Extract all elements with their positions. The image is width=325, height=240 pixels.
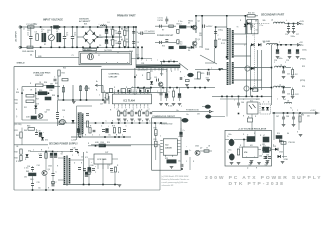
choke L1 [42,33,44,42]
svg-text:C16: C16 [285,34,288,36]
svg-text:100u: 100u [88,172,92,174]
wire primary rail A [127,27,129,47]
svg-text:R45: R45 [26,170,29,173]
wire caps right v [119,27,121,32]
svg-text:C28: C28 [62,110,65,112]
resistor R46 [88,168,90,175]
wire right rail [271,45,273,105]
svg-text:1n: 1n [27,35,29,37]
IC U1 TL494 box [112,94,151,104]
ground c26 [206,79,210,81]
capacitor C20 bank [296,49,299,52]
inductor L6 -5V [275,66,286,67]
opto U4 box [247,102,258,114]
wire bridge v [89,27,91,30]
svg-text:IC5: IC5 [250,101,253,103]
svg-text:+: + [43,132,44,134]
svg-text:L3: L3 [108,22,110,24]
wire pads left [96,84,98,86]
wire y1845 bus [63,184,118,186]
svg-text:11: 11 [170,60,172,62]
resistor R57 [263,148,271,151]
svg-text:GND 4A/6MA: GND 4A/6MA [22,50,34,53]
res above T2 a [79,86,81,91]
TL494 lower grounds [117,118,121,120]
svg-text:D11: D11 [24,107,27,109]
svg-text:D18: D18 [36,103,39,105]
wire 33 drop [273,113,275,140]
wire rails above T2 [62,85,64,100]
wire standby top area [21,128,23,132]
transformer T3 secondary winding [232,30,234,58]
svg-text:L?: L? [263,135,265,137]
shield box inner [81,53,131,63]
svg-text:R29: R29 [16,92,19,94]
more bus dots [102,99,104,101]
res above T2 b [85,86,87,91]
diode D10 [150,81,153,84]
capacitor C22 [282,90,285,92]
svg-text:10u: 10u [186,114,189,116]
resistor R42 [20,149,22,154]
wire bus y123 [14,122,167,124]
ground r56 [299,134,303,136]
component X1 [59,121,64,125]
wire 33 inner [225,139,229,141]
wire left mid [22,119,48,121]
svg-text:PRIMARY PART: PRIMARY PART [117,15,136,18]
capacitor C29 [86,113,89,115]
wire primary rail B [133,27,135,47]
wire bus y100 [58,99,103,101]
svg-text:T2: T2 [61,152,63,154]
svg-text:R5: R5 [126,28,128,30]
svg-text:CX1: CX1 [27,30,30,32]
svg-text:INPUT VOLTAGE: INPUT VOLTAGE [43,19,63,22]
svg-text:10u: 10u [108,135,111,137]
capacitor C36 top [70,149,73,151]
wire -5V out [286,67,291,69]
caps above bus137 a [77,128,80,131]
wire t3 top feed [216,26,227,28]
resistor R32 dark [31,116,37,119]
wire bus y137 [71,136,131,138]
capacitor C12 h [159,25,161,28]
svg-text:C19: C19 [286,60,289,62]
wire powergood wire [152,111,209,113]
diode D7 [244,24,247,27]
inductor L3 on bus [101,25,107,26]
dot t4 [77,152,79,154]
pad +5V [298,44,300,46]
svg-text:100u: 100u [228,134,232,136]
svg-text:Q7: Q7 [200,148,202,150]
standby box top [14,144,48,146]
svg-text:C7 1u/250V: C7 1u/250V [145,31,156,33]
resistor R51 [155,141,158,147]
resistor R55 [299,116,301,122]
svg-text:D14: D14 [28,150,31,153]
svg-text:(PWR): (PWR) [300,59,306,61]
svg-text:+: + [99,24,100,26]
svg-text:C24 10u: C24 10u [194,78,200,81]
svg-text:CIRCUIT: CIRCUIT [109,76,119,78]
svg-text:R1: R1 [44,44,46,46]
svg-text:POWERGOOD: POWERGOOD [186,110,200,112]
diode D5 [191,25,194,28]
junction dots input bus [40,26,42,28]
svg-text:3u3: 3u3 [283,99,286,101]
svg-text:D6: D6 [188,50,190,52]
standby box right [159,145,161,190]
svg-text:R42: R42 [15,151,18,154]
svg-text:R23: R23 [62,73,65,75]
wire left of IC [103,99,109,101]
resistor R52 dark [167,160,176,163]
svg-text:7: 7 [157,60,158,62]
capacitor C13 [165,39,168,41]
svg-text:Q6: Q6 [48,169,50,171]
cluster caps [54,78,57,80]
grounds 33bus [282,124,286,126]
capacitor C8 [202,25,204,28]
LM339 pins right [177,140,180,142]
capacitor C9 [132,30,135,32]
oval cap PG3 [182,118,188,122]
wire diag2 [200,55,217,64]
wire lower cluster h [155,41,176,43]
wire T3 taps right [234,33,247,35]
svg-text:R24: R24 [44,81,47,84]
IC U2 LM339 box [163,139,177,155]
electrolytic C33 [50,153,53,156]
svg-text:POWERGOOD: POWERGOOD [160,124,174,126]
caps right of IC b [165,93,168,96]
ground end bus [118,184,122,186]
svg-text:SECONDARY PART: SECONDARY PART [261,13,285,16]
resistor R33 [86,121,88,127]
svg-text:C+: C+ [227,136,229,138]
svg-text:C 10n: C 10n [178,42,182,44]
inductor L4 +12V [274,22,285,23]
svg-text:1: 1 [141,60,142,62]
wire +5V out [278,44,297,46]
svg-text:+5V: +5V [299,42,303,44]
caps right of IC c [172,91,174,97]
ecap C40 [179,132,182,135]
svg-text:C 1n: C 1n [260,25,264,27]
svg-text:+: + [91,162,92,164]
capacitor C23 [156,79,158,82]
wire doubler left rail [76,27,78,47]
resistor R44 [45,153,47,159]
coil small [219,69,223,70]
svg-text:10n: 10n [176,110,179,112]
dual diode -5V [245,66,250,71]
resistor R17 [147,73,150,80]
wire diag1 [179,63,188,70]
wire plug left [20,27,22,47]
svg-text:L6: L6 [280,65,282,67]
diode D9 +5V [251,43,254,46]
resistor R8 [179,26,186,29]
capacitor C5 bulk [105,29,108,32]
transistor Q5 [38,114,43,119]
svg-text:3: 3 [146,60,147,62]
svg-text:C15: C15 [218,30,221,32]
svg-text:D5: D5 [188,23,190,25]
junction dots extra doubler [82,26,84,28]
svg-text:R10: R10 [107,142,110,144]
snubber cap [250,24,253,26]
ecap C44 [229,154,234,160]
oval cap PG1 [205,105,211,109]
capacitor C32 [39,155,42,157]
svg-text:R46: R46 [91,164,94,167]
svg-text:C32: C32 [39,154,42,156]
svg-text:C2: C2 [66,35,68,37]
svg-text:CONTROL: CONTROL [109,74,120,76]
svg-text:Q2: Q2 [198,39,200,41]
svg-text:R 150K: R 150K [16,161,22,163]
wire +12V out [285,23,297,25]
svg-text:C6: C6 [99,45,101,47]
diode D8 [247,22,250,25]
resistor R3 [112,39,114,45]
svg-text:3039: 3039 [199,35,203,37]
wire bottom bus input [21,46,136,48]
svg-text:R34: R34 [101,141,104,144]
wire pg ovals [202,106,205,108]
svg-text:OUT: OUT [105,152,108,154]
wire T2 top [77,105,93,107]
capacitor C42 [180,164,182,167]
capacitor C14 h [159,41,161,44]
svg-text:R15: R15 [302,66,305,68]
svg-text:200W PC ATX POWER SUPPLY: 200W PC ATX POWER SUPPLY [205,175,322,181]
box comp 33b [263,147,269,153]
svg-text:L: L [211,68,212,70]
svg-text:C9: C9 [137,55,139,57]
svg-text:C48: C48 [286,115,289,118]
svg-text:R7: R7 [162,30,164,32]
hatched strip connector [136,65,180,68]
svg-text:L2: L2 [56,31,58,33]
caps right standby [52,173,55,175]
wire mid rail x215 [215,27,217,47]
wire top bus input [21,26,136,28]
svg-text:CN1: CN1 [141,63,144,65]
svg-text:3866: 3866 [30,179,34,181]
svg-text:(+5V): (+5V) [72,139,77,141]
transformer T3 lower winding [227,62,229,85]
inductor L5 +5V [267,43,278,44]
svg-text:+: + [178,136,179,138]
capacitor C48 [292,116,295,118]
svg-text:817: 817 [256,99,259,101]
wire varistor v [50,27,52,35]
wire pins to parts [118,109,120,111]
resistor R54 [253,89,259,91]
svg-text:C34: C34 [37,164,40,167]
resistor R20 [197,72,200,79]
svg-text:C+: C+ [80,126,82,128]
wire pg left [155,123,157,130]
svg-text:R41: R41 [16,134,19,137]
wire above strip [160,61,178,63]
svg-text:R27: R27 [36,99,39,101]
svg-text:+3.3V VOLTAGE REGULATOR: +3.3V VOLTAGE REGULATOR [238,127,267,130]
svg-text:220: 220 [307,116,310,118]
svg-text:220u: 220u [99,37,103,39]
svg-text:104: 104 [206,77,209,80]
svg-text:Q5: Q5 [45,112,47,114]
oval cap PG2 [206,115,212,119]
capacitor C37 [78,167,81,169]
junction primary rails [124,26,126,28]
inductor L7 -12V [274,86,285,87]
svg-text:R2: R2 [115,31,117,33]
svg-text:10n: 10n [256,30,259,32]
svg-text:R10: R10 [162,46,165,48]
svg-text:220u: 220u [99,27,103,29]
transformer T2 core [79,112,81,136]
resistor R13 [214,40,216,46]
bridge diode D3 [85,39,88,42]
transformer T3 lower secondary [232,62,234,84]
svg-text:C47: C47 [276,115,279,118]
svg-text:D8: D8 [255,21,257,23]
wire pwok [271,148,275,150]
resistor R41 [20,132,22,138]
resistor R29 [26,100,34,103]
diode D11 [34,106,37,109]
svg-text:100u: 100u [228,150,232,152]
svg-text:+: + [186,146,187,148]
resistor R43 [20,155,22,160]
resistor R6 [124,41,126,46]
ecap C41 [185,150,188,153]
svg-text:C21: C21 [287,74,290,76]
svg-text:R10: R10 [277,133,280,135]
diode D15 [275,148,278,151]
capacitor C1 [29,36,32,38]
svg-text:R14 150: R14 150 [248,12,254,15]
svg-text:C18: C18 [274,60,277,62]
svg-text:C30: C30 [38,131,41,133]
electrolytic C31 [39,132,42,135]
resistor R26 dark [38,92,47,95]
pad +12V [298,22,300,24]
wire snubber [244,16,246,34]
bridge diode D4 [92,39,95,42]
svg-text:L: L [286,20,287,22]
svg-text:SHIELD: SHIELD [17,63,25,65]
svg-text:+3.3V: +3.3V [310,110,316,112]
resistor R24 [36,84,44,87]
transistor Q4 [159,82,163,86]
resistor R23 [58,70,60,76]
caps above bus137 b [89,128,91,133]
svg-text:R17: R17 [150,71,153,73]
caps bottom mid2 [110,168,113,170]
capacitor C47 [282,116,285,118]
resistor R40 [28,128,35,131]
IC3 box [94,154,112,164]
svg-text:R26: R26 [39,90,42,92]
wire T3 primary left [226,16,228,28]
resistor R16 [292,90,294,96]
svg-text:R43: R43 [15,157,18,160]
thermistor TH1 [54,26,59,29]
capacitor C15 [214,31,217,33]
TL494 bottom pins [114,104,116,107]
transistor Q6 [42,170,47,175]
wire mid rail doubler [98,36,122,38]
svg-text:PW-OK: PW-OK [289,142,296,144]
LM339 pins left [160,140,163,142]
svg-text:1000u: 1000u [278,58,283,60]
svg-text:R40: R40 [24,129,27,132]
svg-text:POWER CIRCUIT: POWER CIRCUIT [157,35,174,37]
capacitor C49 pair [264,156,267,158]
svg-text:2R2: 2R2 [262,144,265,146]
svg-text:T1: T1 [237,27,239,29]
wire 33 box [225,130,272,166]
wire R5R6 [124,27,126,30]
svg-text:F1 5A/250V: F1 5A/250V [27,23,38,26]
svg-text:Q1: Q1 [198,21,200,23]
transistor Q1 [192,25,197,30]
fuse F1 [28,26,35,28]
junction left [35,92,37,94]
svg-text:C46: C46 [241,101,244,104]
svg-text:R23: R23 [63,68,66,70]
wire upper cluster h [155,25,176,27]
wire T2 bottom taps [78,135,80,137]
capacitor C28 pair [56,112,59,114]
capacitor C18 bank [276,49,279,52]
wire y964 [212,95,272,97]
wire sec rails [245,34,247,96]
resistor R5 [124,30,126,35]
bridge diode D2 [92,32,95,35]
svg-text:C22: C22 [287,94,290,96]
wire pwm area [214,48,216,63]
strip pins down [138,68,140,71]
TL494 pin numbers top [113,89,116,92]
capacitor C bars [118,31,121,33]
resistor R10 [169,46,174,48]
ground sec top [287,31,291,33]
resistor R9 [177,29,179,33]
wire caps v [64,27,66,37]
diode D6 [191,46,194,49]
svg-text:Q4 C3039: Q4 C3039 [104,49,112,52]
caps above bus137 c [102,129,105,131]
capacitor C34 [31,167,34,169]
capacitor C10 [132,41,135,43]
wire to drive [135,27,137,65]
svg-text:FR302: FR302 [188,20,193,22]
choke L2 [57,33,59,42]
svg-text:(PS ON): (PS ON) [15,124,22,126]
grounds 33box [230,162,234,164]
coil L8 [285,102,292,103]
svg-text:FR302: FR302 [188,48,193,50]
transformer T2 right winding [82,114,84,135]
wire -12V row [254,87,272,89]
